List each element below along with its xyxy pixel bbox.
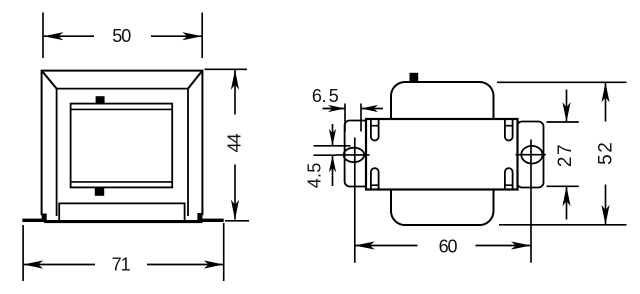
lamination tab bottom (black) [95, 187, 104, 195]
slot left-top [371, 119, 379, 141]
coil bobbin (top view) [391, 82, 494, 225]
dim 27 arrow bottom (up) [562, 186, 570, 219]
dim 71 line + arrows [23, 260, 223, 268]
screw left cross h [337, 154, 370, 156]
dim 6.5 ext line a [344, 104, 346, 132]
foot left (black) [42, 214, 47, 223]
dim 4.5 arrow up [329, 155, 336, 186]
dim 50 extension line right [201, 13, 203, 59]
foot right (black) [197, 213, 202, 222]
frame bevel top-left [42, 71, 57, 89]
coil tab (black) [410, 73, 419, 83]
screw hole left [344, 148, 365, 162]
dim 6.5 ext line b [360, 104, 362, 132]
dim 60 line + arrows [355, 241, 531, 249]
base flange tab right [202, 219, 224, 222]
svg-text:27: 27 [555, 143, 576, 167]
dim 44 extension line bottom [225, 220, 249, 222]
svg-text:44: 44 [224, 133, 244, 152]
lamination tab top (black) [96, 96, 105, 104]
dim 71 extension line left [22, 225, 24, 281]
svg-text:4.5: 4.5 [304, 163, 324, 189]
svg-text:6.5: 6.5 [312, 86, 339, 106]
coil window [71, 104, 173, 188]
mounting flange tab right [517, 122, 544, 188]
screw hole right [521, 146, 542, 164]
bobbin flange line top [71, 108, 173, 110]
dim 4.5 arrow down [329, 124, 336, 146]
dim 71 extension line right [223, 223, 225, 281]
screw right center line v (60 ext) [530, 140, 532, 263]
transformer frame outer [42, 71, 203, 216]
bobbin flange line bottom [71, 181, 173, 183]
dim 27 arrow top (down) [562, 90, 570, 123]
dim 4.5 line upper [314, 145, 351, 147]
bottom yoke tray [59, 203, 184, 220]
dim 44 arrow down [231, 165, 239, 220]
svg-text:71: 71 [112, 255, 131, 275]
slot right-bottom [505, 168, 513, 189]
transformer frame inner [57, 89, 188, 216]
dim 50 line + arrows [44, 32, 203, 40]
base plate bar [44, 220, 203, 223]
dim 44 extension line top [205, 68, 248, 70]
svg-text:52: 52 [595, 141, 616, 165]
dim 52 arrow down [601, 185, 609, 225]
mounting flange tab left [345, 121, 369, 187]
slot right-top [505, 119, 513, 141]
dim 52 extension line bottom [499, 224, 627, 226]
slot left-bottom [371, 168, 379, 189]
frame bevel top-right [188, 71, 202, 89]
dim 52 arrow up [601, 83, 609, 122]
svg-text:60: 60 [439, 237, 458, 257]
screw right cross h [516, 154, 547, 156]
screw left center line v (60 ext) [354, 138, 356, 263]
base flange tab left [22, 219, 45, 222]
dim 27 extension line top [547, 121, 579, 123]
dim 4.5 line lower [314, 154, 337, 156]
dim 6.5 arrows [323, 105, 384, 112]
dim 44 arrow up [231, 70, 239, 115]
dim 52 extension line top [497, 81, 627, 83]
dim 27 extension line bottom [547, 185, 579, 187]
lamination bracket [366, 119, 518, 190]
dim 50 extension line left [42, 13, 44, 59]
svg-text:50: 50 [112, 26, 131, 46]
